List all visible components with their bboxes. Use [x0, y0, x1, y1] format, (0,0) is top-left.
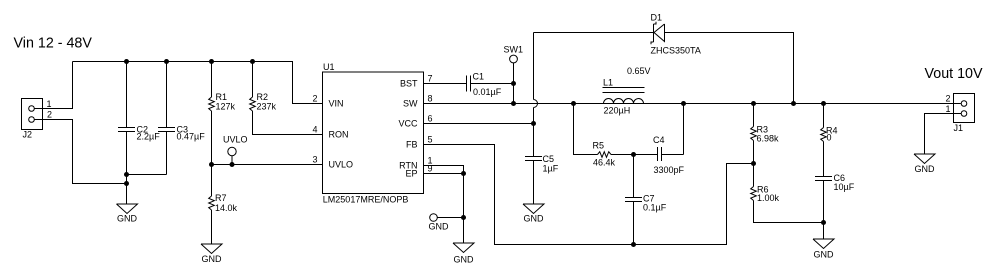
node SW1 flag	[504, 45, 524, 104]
U1 pin numbers	[312, 74, 432, 174]
svg-text:10µF: 10µF	[834, 182, 855, 192]
svg-text:Vin 12 - 48V: Vin 12 - 48V	[14, 36, 93, 52]
junction L1 right branch	[681, 101, 686, 106]
junction C1/SW1	[511, 81, 516, 86]
resistor R4	[821, 104, 838, 177]
capacitor C5	[525, 154, 559, 204]
ground under C2	[117, 204, 138, 214]
inductor L1	[603, 78, 645, 116]
svg-text:Vout 10V: Vout 10V	[925, 66, 983, 82]
svg-text:3300pF: 3300pF	[654, 165, 685, 175]
ground under J1	[914, 154, 935, 164]
capacitor C3	[158, 62, 205, 175]
junction SW1 on SW rail	[511, 101, 516, 106]
svg-text:FB: FB	[406, 140, 418, 150]
junction R5/C4/C7	[631, 152, 636, 157]
junction C7 bottom	[631, 242, 636, 247]
U1 pin names	[329, 79, 419, 179]
svg-text:J2: J2	[23, 130, 33, 140]
svg-text:GND: GND	[524, 214, 545, 224]
svg-text:C5: C5	[543, 154, 555, 164]
junction VCC node	[531, 121, 536, 126]
svg-text:220µH: 220µH	[604, 106, 631, 116]
wire EP column to ground	[463, 174, 465, 244]
svg-text:VCC: VCC	[398, 119, 418, 129]
junction R1 top	[209, 59, 214, 64]
ground under R7	[201, 244, 222, 254]
svg-text:EP: EP	[405, 169, 417, 179]
svg-text:ZHCS350TA: ZHCS350TA	[651, 46, 701, 56]
wire SW rail to output	[424, 103, 961, 105]
svg-text:5: 5	[428, 135, 433, 145]
svg-text:2: 2	[945, 94, 950, 104]
svg-text:127k: 127k	[216, 102, 236, 112]
svg-text:4: 4	[312, 125, 317, 135]
svg-text:C4: C4	[653, 135, 665, 145]
svg-text:2: 2	[312, 94, 317, 104]
wire C1 to SW1 column	[471, 83, 514, 85]
wire J2 pin2 to ground rail	[34, 120, 126, 184]
resistor R1	[209, 62, 236, 165]
svg-text:0.65V: 0.65V	[627, 66, 651, 76]
svg-text:237k: 237k	[257, 102, 277, 112]
svg-text:VIN: VIN	[329, 99, 344, 109]
svg-text:2: 2	[47, 110, 52, 120]
svg-text:LM25017MRE/NOPB: LM25017MRE/NOPB	[323, 195, 409, 205]
junction C2 top	[124, 59, 129, 64]
svg-text:GND: GND	[814, 250, 835, 260]
svg-text:UVLO: UVLO	[223, 135, 248, 145]
node UVLO flag	[223, 135, 248, 165]
capacitor C6	[815, 173, 855, 239]
IC U1 LM25017MRE/NOPB body	[323, 62, 424, 205]
svg-text:0.1µF: 0.1µF	[643, 203, 667, 213]
svg-text:R2: R2	[257, 92, 269, 102]
diode D1 top loop wire right	[665, 33, 794, 104]
svg-text:46.4k: 46.4k	[593, 158, 616, 168]
svg-text:C1: C1	[473, 72, 485, 82]
resistor R3	[751, 104, 779, 164]
capacitor C7	[625, 155, 667, 245]
svg-text:7: 7	[428, 74, 433, 84]
wire J2 pin1 to Vin top rail	[34, 62, 72, 109]
svg-text:6: 6	[428, 114, 433, 124]
svg-text:R1: R1	[216, 92, 228, 102]
resistor R6	[751, 164, 824, 223]
svg-text:14.0k: 14.0k	[215, 203, 238, 213]
junction R1 bottom	[209, 162, 214, 167]
diode D1 ZHCS350TA	[651, 13, 701, 56]
diode D1 top loop wire left	[534, 32, 654, 34]
junction L1 left branch	[571, 101, 576, 106]
connector J2	[22, 99, 53, 140]
capacitor C4	[634, 135, 685, 175]
svg-text:GND: GND	[454, 255, 475, 265]
svg-text:1: 1	[47, 99, 52, 109]
ground under C5	[523, 204, 544, 214]
junction C3 top	[164, 59, 169, 64]
svg-text:8: 8	[428, 94, 433, 104]
wire VCC column with hop over SW rail	[534, 33, 538, 157]
wire UVLO rail to pin 3	[212, 164, 323, 166]
svg-text:U1: U1	[323, 62, 335, 72]
svg-text:SW: SW	[403, 99, 418, 109]
svg-text:GND: GND	[429, 222, 450, 232]
svg-text:J1: J1	[954, 123, 964, 133]
svg-text:1: 1	[945, 104, 950, 114]
wire C4 branch up	[683, 104, 685, 155]
junction R2 top	[250, 59, 255, 64]
junction UVLO stub	[230, 162, 235, 167]
ground under EP	[453, 243, 474, 253]
wire RTN pin	[424, 166, 464, 174]
svg-text:GND: GND	[915, 164, 936, 174]
wire VCC pin	[424, 123, 534, 125]
svg-text:UVLO: UVLO	[329, 160, 354, 170]
junction C2 bottom rail1	[124, 172, 129, 177]
svg-text:GND: GND	[117, 214, 138, 224]
svg-text:3: 3	[312, 155, 317, 165]
svg-text:R7: R7	[215, 193, 227, 203]
svg-text:R5: R5	[593, 141, 605, 151]
connector J1	[945, 94, 974, 134]
junction R3 top	[751, 101, 756, 106]
junction R3/R6 FB node	[751, 161, 756, 166]
svg-text:2.2µF: 2.2µF	[137, 132, 161, 142]
svg-text:D1: D1	[651, 13, 663, 23]
junction EP node	[461, 171, 466, 176]
wire C3 bottom to C2	[127, 174, 167, 176]
wire Vin top rail	[73, 62, 323, 104]
svg-text:SW1: SW1	[504, 45, 524, 55]
wire EP pin	[424, 173, 464, 175]
svg-text:RON: RON	[329, 130, 349, 140]
junction R4 top	[821, 101, 826, 106]
resistor R5	[593, 141, 634, 168]
svg-text:0.47µF: 0.47µF	[177, 132, 206, 142]
wire BST pin to C1	[424, 83, 467, 85]
power flag GND sphere	[429, 214, 464, 232]
ground under C6	[813, 239, 834, 249]
capacitor C1	[467, 72, 502, 98]
capacitor C2	[118, 62, 160, 205]
junction C6 bottom	[821, 220, 826, 225]
wire R5 branch down	[574, 104, 598, 155]
svg-text:1µF: 1µF	[543, 164, 559, 174]
svg-text:1.00k: 1.00k	[757, 193, 780, 203]
svg-text:BST: BST	[400, 79, 418, 89]
junction D1 return	[791, 101, 796, 106]
svg-text:6.98k: 6.98k	[757, 134, 780, 144]
svg-text:0: 0	[827, 133, 832, 143]
wire J1 pin1 to ground	[925, 114, 962, 155]
wire FB pin loop	[424, 145, 754, 245]
svg-text:0.01µF: 0.01µF	[473, 87, 502, 97]
junction C2 bottom rail2	[124, 181, 129, 186]
resistor R7	[209, 165, 238, 245]
junction GND sphere node	[461, 215, 466, 220]
resistor R2	[250, 62, 323, 135]
svg-text:GND: GND	[202, 254, 223, 264]
svg-text:L1: L1	[603, 78, 613, 88]
